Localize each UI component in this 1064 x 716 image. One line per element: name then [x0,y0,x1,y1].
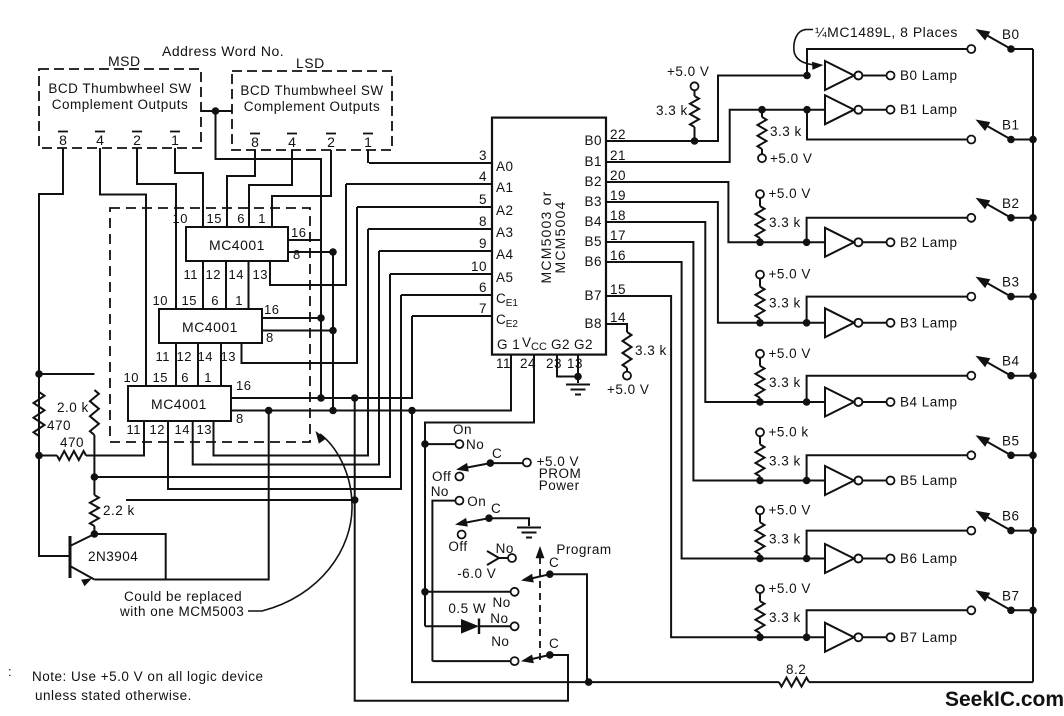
svg-text:BCD Thumbwheel SW: BCD Thumbwheel SW [240,83,383,98]
wire input A5 [390,273,492,275]
wire prog1 No to VCC bus [425,591,510,593]
terminal B3 lamp [887,319,895,327]
wire U3 pin13 to A3 [214,229,369,456]
wire B6 switch link [807,531,968,559]
terminal +5V B0 [691,82,699,90]
svg-text:2N3904: 2N3904 [88,549,138,564]
junction program bus node [351,496,359,504]
ground symbol [566,385,590,395]
svg-text:3.3 k: 3.3 k [769,296,801,311]
wire MSD 1 to U1 pin10 [175,148,203,227]
wire B5 to bus [1011,454,1033,456]
inverter B0 (1/4 MC1489L) [825,61,854,90]
program arrowhead [536,546,545,558]
svg-text:8: 8 [266,330,274,345]
resistor 3.3k B0 [690,96,699,127]
svg-text:7: 7 [479,301,487,316]
svg-text:B2: B2 [584,174,602,189]
switch2 wiper [461,518,489,523]
svg-text:B0: B0 [1002,27,1020,42]
svg-text:0.5 W: 0.5 W [448,601,486,616]
svg-text:SeekIC.com: SeekIC.com [945,688,1064,711]
wire input A0 [369,162,492,164]
program switch1 common node [546,570,554,578]
junction bus B1 [1029,136,1037,144]
svg-text:C: C [549,636,559,651]
wire node to A5 [94,274,390,477]
svg-text:with one MCM5003: with one MCM5003 [119,604,244,619]
wire B3 pullup top lead [759,279,761,287]
svg-text:+5.0 k: +5.0 k [769,424,809,439]
svg-text:Complement Outputs: Complement Outputs [244,99,381,114]
svg-text:+5.0 V: +5.0 V [607,382,649,397]
junction bus B5 [1029,452,1037,460]
svg-text:MC4001: MC4001 [151,396,207,412]
wire B6 pullup bottom lead [759,554,761,558]
resistor 3.3k B7 [756,601,765,633]
wire B7 pullup bottom lead [759,633,761,637]
svg-text:15: 15 [153,370,168,385]
switch B3 common node [1007,293,1015,301]
mini selector lead [499,557,508,559]
wire B0 switch link [807,49,967,76]
svg-text:+5.0 V: +5.0 V [769,502,811,517]
wire U2 pin12 to U3 pin6 [197,343,199,386]
svg-text:Note: Use +5.0 V on all logic: Note: Use +5.0 V on all logic device [32,669,264,684]
svg-text:10: 10 [471,259,487,274]
wire G2b stub [577,355,579,383]
program dashed line [539,557,541,665]
junction B2 inverter node [803,239,811,247]
terminal +5V B5 [756,428,764,436]
program switch2 No terminal [511,657,519,665]
junction B1 inverter node [803,106,811,114]
svg-text:On: On [467,494,486,509]
svg-text:B6: B6 [584,254,602,269]
svg-text:B2 Lamp: B2 Lamp [900,235,958,250]
svg-text:2: 2 [133,132,141,148]
wire program bus vertical [355,398,568,701]
wire B2 to bus [1011,217,1033,219]
svg-text:4: 4 [96,132,104,148]
wire B4 pullup top lead [759,358,761,366]
junction U3 pin16 node A [317,394,325,402]
wire U1 pin12 to U2 pin6 [225,261,227,309]
junction U3 pin8 node A [329,407,337,415]
svg-text:3.3 k: 3.3 k [635,343,667,358]
svg-text:B5 Lamp: B5 Lamp [900,473,958,488]
svg-text:8: 8 [236,411,244,426]
svg-text:10: 10 [173,211,188,226]
svg-text:+5.0 V: +5.0 V [770,151,812,166]
transistor Q1 collector [70,534,94,546]
switch1 common node [487,459,495,467]
svg-text:B7 Lamp: B7 Lamp [900,630,958,645]
switch B1 wiper arrow [976,120,991,132]
junction U2 pin8 node [329,327,337,335]
terminal B1 lamp [887,106,895,114]
memory IC MCM5003/MCM5004 [492,118,606,355]
junction 2.0k/2.2k node [91,473,99,481]
svg-text:12: 12 [177,349,192,364]
wire LSD 4 to U1 pin6 [249,150,292,227]
wire B2 lamp lead [863,241,887,243]
resistor 3.3k B1 [758,117,767,149]
junction B0 inverter node [803,72,811,80]
svg-text:B7: B7 [1002,588,1020,603]
switch B4 common node [1007,372,1015,380]
wire sw2 On link [432,501,455,661]
svg-text:470: 470 [60,435,84,450]
wire input A4 [379,250,492,252]
switch B7 common node [1007,607,1015,615]
switch B5 wiper [981,438,1011,455]
wire B4 lamp lead [863,401,887,403]
switch B7 throw terminal [967,606,975,614]
svg-text:15: 15 [207,211,222,226]
svg-text:22: 22 [610,127,626,142]
switch2 On terminal [455,497,463,505]
svg-text:4: 4 [288,134,296,150]
svg-text:B3: B3 [1002,275,1020,290]
terminal +5V B8 [623,372,631,380]
wire LSD 8 to U1 pin15 [227,150,255,227]
svg-text:8: 8 [479,214,487,229]
svg-text:14: 14 [610,310,626,325]
wire B0 output [606,76,807,142]
wire sw1 common to +5V [490,462,522,464]
svg-text:10: 10 [153,293,168,308]
switch2 Off terminal [458,531,466,539]
junction B4 pullup node [756,398,764,406]
annotation curve arrowhead [316,431,327,444]
wire B6 lamp lead [863,558,887,560]
resistor 3.3k B6 [756,522,765,554]
resistor 2.2k [90,495,99,526]
gate IC MC4001 #1 [186,227,288,261]
wire U1 pin16 output [288,239,321,241]
svg-text:LSD: LSD [296,55,325,71]
resistor 3.3k B8 [623,332,632,368]
svg-text:3.3 k: 3.3 k [656,103,688,118]
resistor 3.3k B2 [756,206,765,238]
wire U2 pin11 to U3 pin15 [175,343,177,386]
wire input A2 [357,206,492,208]
wire B3 to bus [1011,296,1033,298]
svg-text:+5.0 V: +5.0 V [769,267,811,282]
svg-text:B1: B1 [584,154,602,169]
svg-text:MC4001: MC4001 [209,237,265,253]
wire LSD 2 to U1 pin1 [272,150,331,227]
inverter B2 (1/4 MC1489L) [825,228,854,257]
svg-text:Off: Off [432,469,451,484]
terminal +5V B6 [756,506,764,514]
svg-text:No: No [491,634,509,649]
wire line to program bus [126,499,355,501]
svg-text:1: 1 [258,211,266,226]
switch B1 common node [1007,136,1015,144]
junction bus B3 [1029,293,1037,301]
wire B5 lamp lead [863,480,887,482]
terminal B7 lamp [887,633,895,641]
resistor 3.3k B3 [756,287,765,319]
program switch1 arrow [521,574,534,583]
wire G2a stub [557,355,578,377]
svg-text:11: 11 [127,422,142,437]
svg-text:A2: A2 [496,203,514,218]
svg-text:Complement Outputs: Complement Outputs [52,97,189,112]
svg-text:B4: B4 [1002,354,1020,369]
junction bus B6 [1029,527,1037,535]
gate IC MC4001 #3 [128,386,231,421]
svg-text:MCM5004: MCM5004 [552,201,568,274]
wire input A3 [368,228,492,230]
svg-text:8: 8 [59,132,67,148]
svg-text:B8: B8 [584,316,602,331]
wire B0 pullup top lead [694,91,696,96]
inverter B1 (1/4 MC1489L) [825,95,854,124]
svg-text:3.3 k: 3.3 k [769,375,801,390]
svg-text:3.3 k: 3.3 k [770,124,802,139]
svg-text:15: 15 [610,282,626,297]
svg-text:16: 16 [291,225,306,240]
wire U2 pin16 output [262,317,321,319]
switch B0 throw terminal [967,45,975,53]
svg-text:¼MC1489L, 8 Places: ¼MC1489L, 8 Places [815,24,958,40]
svg-text:+5.0 V: +5.0 V [769,581,811,596]
svg-text:B3 Lamp: B3 Lamp [900,315,958,330]
junction U2 pin16 node [317,314,325,322]
junction bottom line prog [585,678,593,686]
svg-text:2.0 k: 2.0 k [57,400,89,415]
resistor 2.0k [90,390,99,435]
svg-text:6: 6 [237,211,245,226]
switch B4 wiper arrow [976,356,991,368]
svg-text:A0: A0 [496,159,514,174]
wire B7 output [606,296,825,637]
wire diode lead left [425,625,461,627]
svg-text:B6: B6 [1002,509,1020,524]
wire common node to CE2/pin16 bus [216,111,322,398]
terminal +5V B2 [756,190,764,198]
svg-text:1: 1 [204,370,212,385]
switch B3 wiper [981,280,1011,297]
junction B2 pullup node [756,239,764,247]
terminal B2 lamp [887,238,895,246]
wire B8 output [606,324,627,332]
wire MSD-LSD common [201,110,232,112]
wire B1 pullup lead [761,110,763,117]
diode No terminal [511,622,519,630]
wire 470h left [39,455,57,457]
junction 470/470 node [35,452,43,460]
junction VCC/On node [421,440,429,448]
wire MSD 2 to U2 pin10 [137,148,176,309]
program switch2 arrow [521,655,534,664]
annotation arrowhead [812,62,824,70]
switch1 On terminal [455,440,463,448]
junction VCC/program node [421,588,429,596]
junction U1 pin8 node [329,248,337,256]
junction bus B4 [1029,372,1037,380]
svg-text:A3: A3 [496,225,514,240]
svg-text:B1 Lamp: B1 Lamp [900,102,958,117]
svg-text:12: 12 [150,422,165,437]
svg-text:6: 6 [479,280,487,295]
wire B1 lamp lead [863,109,887,111]
svg-text:6: 6 [181,370,189,385]
wire U2 pin13 to A2 line [242,207,358,363]
svg-text:C: C [549,555,559,570]
transistor Q1 emitter [70,566,94,580]
junction B1 pullup node [758,106,766,114]
switch B2 common node [1007,214,1015,222]
wire 2.2k top lead [93,477,95,495]
switch2 common node [485,514,493,522]
wire left bus lower [39,374,70,556]
svg-text:B4: B4 [584,214,602,229]
svg-text:B1: B1 [1002,118,1020,133]
svg-text:Address Word No.: Address Word No. [162,43,284,59]
program switch1 wiper [527,574,550,579]
switch B5 throw terminal [967,451,975,459]
junction emitter/G1 node [265,407,273,415]
junction B3 inverter node [803,319,811,327]
wire prog2 No link [432,660,510,662]
svg-text:20: 20 [610,168,626,183]
svg-text:1: 1 [364,134,372,150]
switch B3 throw terminal [967,293,975,301]
mini selector fork [487,551,499,565]
svg-text:No: No [431,484,449,499]
svg-text:6: 6 [211,293,219,308]
svg-text::: : [8,664,12,679]
svg-text:3.3 k: 3.3 k [769,531,801,546]
svg-text:A4: A4 [496,247,514,262]
switch1 wiper arrow [456,463,469,472]
gate IC MC4001 #2 [159,309,262,343]
wire B2 pullup top lead [759,199,761,207]
diode D1 0.5W [461,619,479,634]
svg-text:Could be replaced: Could be replaced [124,589,242,604]
wire B1 switch link [807,110,967,140]
terminal +5V PROM [523,459,531,467]
wire B3 switch link [807,297,968,323]
svg-text:13: 13 [221,349,236,364]
svg-text:3.3 k: 3.3 k [769,610,801,625]
switch B6 wiper arrow [976,511,991,522]
svg-text:5: 5 [479,192,487,207]
svg-text:-6.0 V: -6.0 V [457,566,496,581]
terminal B0 lamp [887,72,895,80]
ground symbol sw2 [517,528,541,538]
junction B6 pullup node [756,555,764,563]
wire U3 pin14 to A4 [193,251,379,465]
svg-text:14: 14 [229,267,244,282]
wire B4 pullup bottom lead [759,398,761,402]
program switch2 wiper [527,655,550,660]
terminal B4 lamp [887,398,895,406]
junction bus B2 [1029,214,1037,222]
wire U3 pin16 output to CE2 [231,316,412,398]
svg-text:11: 11 [156,349,171,364]
switch1 wiper [462,463,490,468]
svg-text:13: 13 [197,422,212,437]
transistor Q1 emitter arrow [81,578,92,586]
switch B0 wiper [981,32,1011,49]
wire input CE2 [412,315,492,317]
wire MSD 4 to U3 pin10 [100,148,146,386]
wire B4 output [606,222,825,402]
svg-text:8: 8 [293,247,301,262]
wire B5 pullup top lead [759,437,761,445]
junction U3 pin16 node B [351,394,359,402]
annotation curve to dashed box [248,434,352,611]
svg-text:No: No [490,611,508,626]
switch B6 throw terminal [967,527,975,535]
wire diode lead right [479,625,510,627]
wire B5 output [606,242,825,481]
resistor 470 vertical [34,392,45,436]
wire LSD 1 to A0 [367,150,369,163]
svg-text:B5: B5 [584,234,602,249]
svg-text:1: 1 [171,132,179,148]
switch B1 throw terminal [967,136,975,144]
svg-text:+5.0 V: +5.0 V [769,186,811,201]
mini selector terminal [508,554,516,562]
svg-text:G2: G2 [551,337,570,352]
svg-text:+5.0 V: +5.0 V [769,346,811,361]
wire B7 to bus [1011,609,1033,611]
wire B4 to bus [1011,375,1033,377]
svg-text:3.3 k: 3.3 k [769,453,801,468]
terminal +5V B7 [756,585,764,593]
wire B7 switch link [807,610,968,637]
dashed box around MC4001s [110,208,310,442]
wire B3 output [606,202,825,323]
wire U1 pin14 to U2 pin1 [248,261,250,309]
terminal +5V B3 [756,271,764,279]
wire pin8 bus vertical [332,252,334,411]
svg-text:A1: A1 [496,180,514,195]
svg-text:B5: B5 [1002,433,1020,448]
svg-text:16: 16 [610,248,626,263]
switch B5 wiper arrow [976,435,991,447]
svg-text:MC4001: MC4001 [182,319,238,335]
program switch1 No terminal [511,588,519,596]
svg-text:B4 Lamp: B4 Lamp [900,395,958,410]
svg-text:B6 Lamp: B6 Lamp [900,551,958,566]
resistor 470 horizontal [57,451,86,460]
wire B1 to bus [1011,139,1033,141]
BCD thumbwheel switch MSD (dashed box) [39,69,201,148]
wire prog1 common to bottom [550,574,587,682]
svg-text:Power: Power [539,478,580,493]
svg-text:17: 17 [610,228,626,243]
wire B5 switch link [807,455,968,480]
svg-text:B7: B7 [584,288,602,303]
wire bus top corner [1011,48,1033,50]
wire B3 lamp lead [863,322,887,324]
inverter B7 (1/4 MC1489L) [825,623,854,652]
switch B1 wiper [981,123,1011,140]
wire B1 output [606,110,825,162]
wire emitter line to G1 net [94,411,268,580]
terminal B5 lamp [887,477,895,485]
svg-text:11: 11 [496,356,511,371]
wire 2.2k bottom lead [93,526,95,534]
switch1 Off terminal [455,473,463,481]
